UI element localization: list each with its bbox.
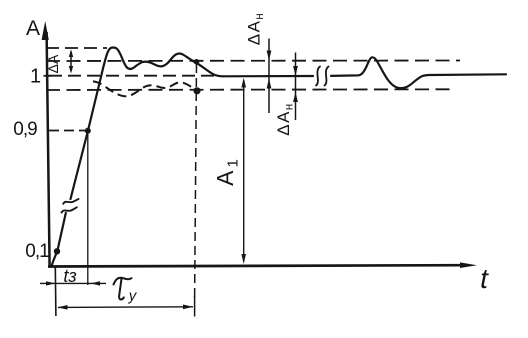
response curve start segment <box>52 213 66 267</box>
dimension line dAn upper <box>267 39 272 114</box>
line break squiggle 1 <box>316 67 320 86</box>
dot at 0.1 crossing <box>54 248 60 254</box>
break squiggle lower <box>62 207 77 212</box>
svg-text:ΔA: ΔA <box>45 54 61 73</box>
dot on dashed curve at settle boundary <box>193 87 200 94</box>
lower tolerance dashed line (1-dAn) <box>46 88 455 91</box>
dot on solid curve at settle boundary <box>194 59 200 65</box>
unity level dashed line <box>49 75 218 77</box>
settling time dimension tau_u <box>58 305 194 310</box>
label tau_u <box>114 278 132 300</box>
0.9 level dashed line <box>49 130 86 132</box>
y-axis A <box>42 21 50 267</box>
dot at 0.9 crossing <box>85 128 91 134</box>
line break squiggle 2 <box>325 67 329 86</box>
tick level 1 <box>44 75 52 77</box>
svg-text:t: t <box>480 263 489 294</box>
settle-time line solid foot <box>194 296 196 317</box>
t-axis <box>48 262 477 268</box>
rise time dimension tz <box>40 281 106 285</box>
dimension line dAn lower <box>293 53 298 121</box>
amplitude dimension arrow A1 <box>241 78 246 264</box>
response curve settled segment with excursion <box>331 57 506 88</box>
mirror dashed curve <box>93 81 197 96</box>
break squiggle upper <box>63 199 78 204</box>
svg-text:tз: tз <box>63 266 76 286</box>
svg-text:0,9: 0,9 <box>13 119 37 140</box>
overshoot dimension arrow dA <box>69 49 73 73</box>
svg-text:0,1: 0,1 <box>25 241 49 262</box>
upper tolerance dashed line (1+dAn) <box>46 60 460 63</box>
thin vertical line at 0.9 crossing <box>87 131 89 285</box>
left dimension boundary line <box>54 267 57 317</box>
svg-text:A: A <box>26 17 40 40</box>
dashed vertical settle-time line <box>195 64 197 298</box>
peak level dashed line (1+dA) <box>46 47 107 49</box>
svg-text:1: 1 <box>30 66 41 88</box>
response curve rising segment <box>71 48 314 200</box>
